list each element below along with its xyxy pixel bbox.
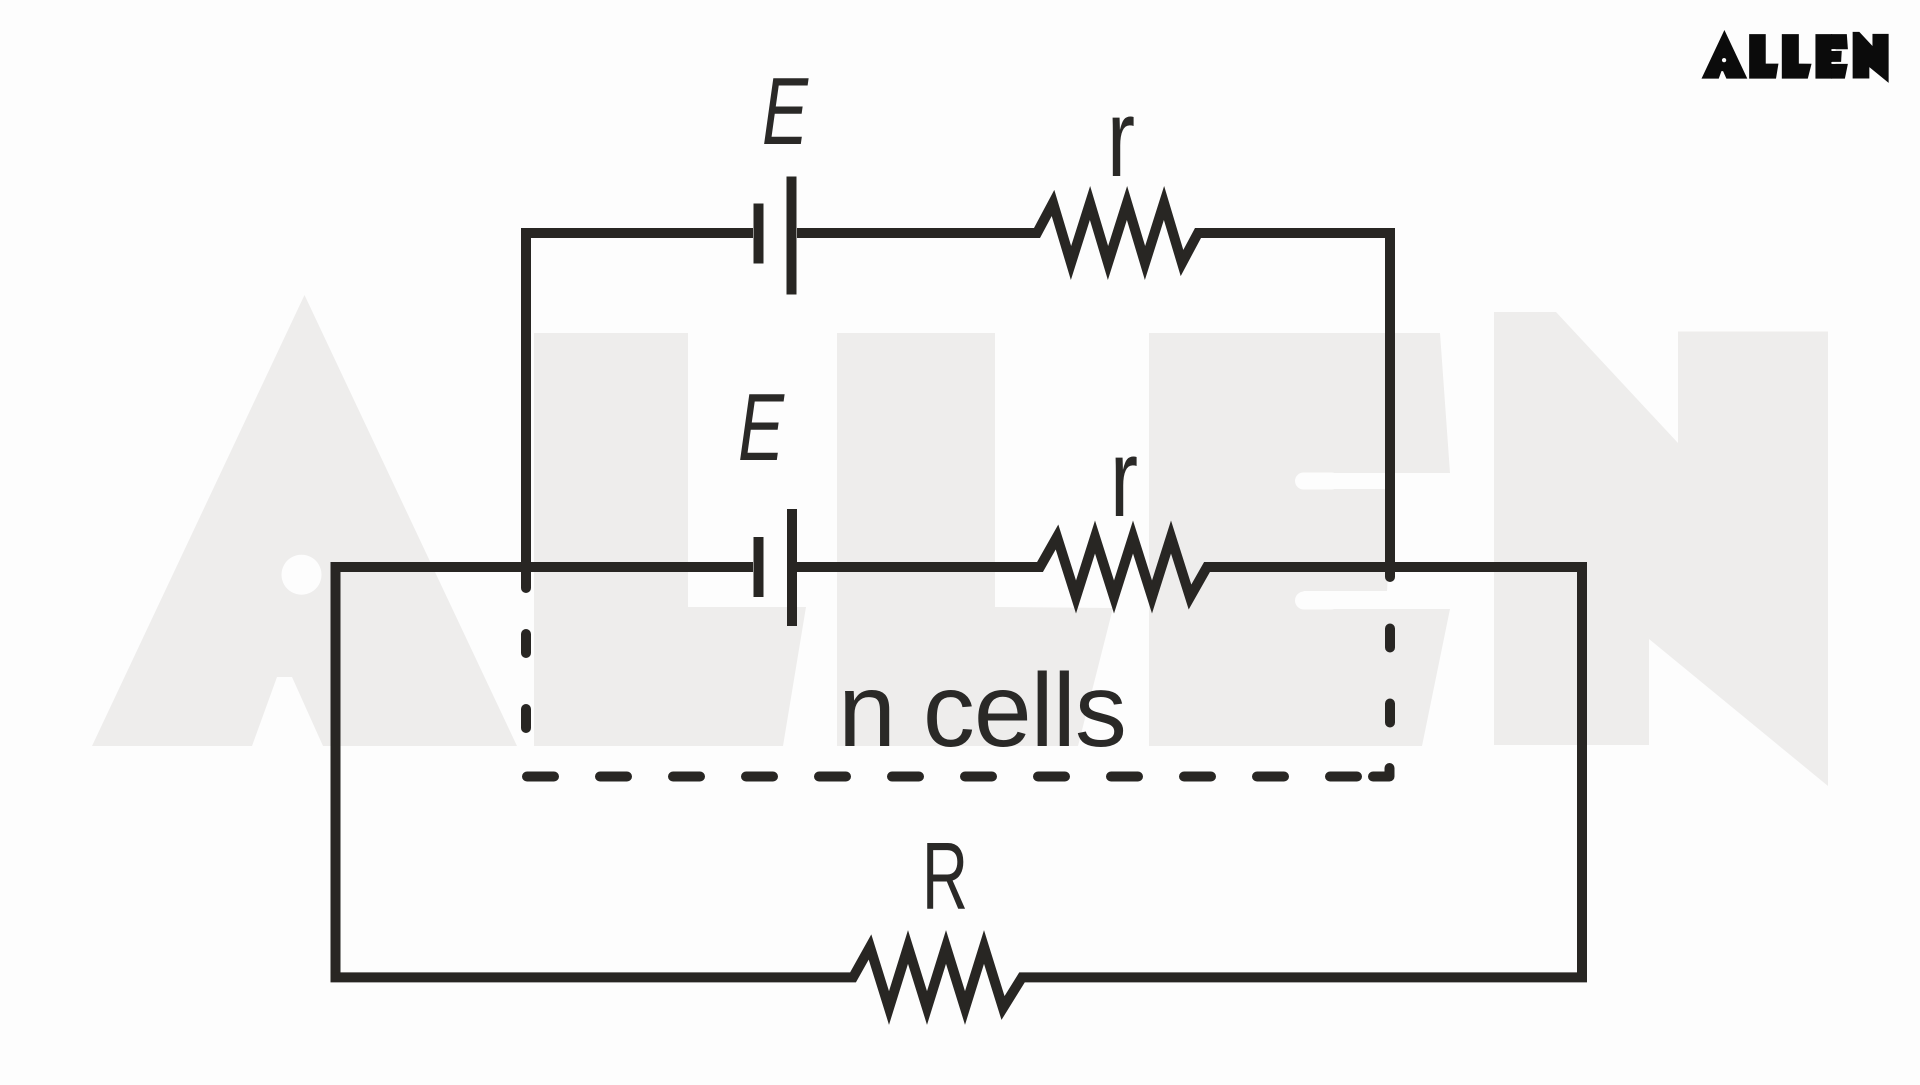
wire: second branch left segment: [336, 562, 754, 572]
svg-text:E: E: [738, 374, 785, 481]
resistor r (second) with leads: [797, 537, 1582, 597]
resistor R (bottom) with leads: [331, 947, 1588, 1008]
svg-text:n cells: n cells: [838, 653, 1126, 769]
wire: right vertical from top branch: [1385, 228, 1395, 577]
wire: outer loop left side: [331, 562, 341, 977]
resistor r (top) with leads: [797, 203, 1390, 263]
wire: top branch left segment: [526, 228, 753, 238]
svg-text:R: R: [922, 823, 968, 930]
wire: left vertical from top branch: [521, 228, 531, 588]
watermark ALLEN: [92, 295, 1828, 786]
dashed line: right vertical of n-cells box: [1385, 629, 1395, 761]
svg-text:r: r: [1110, 417, 1138, 540]
dashed corner hook bottom-right of n-cells box: [1373, 768, 1390, 777]
dashed line: bottom of n-cells box: [527, 772, 1389, 782]
svg-text:E: E: [762, 58, 809, 165]
wire: outer loop right side: [1577, 562, 1587, 977]
battery cell E (top), long plate: [787, 177, 797, 295]
battery cell E (second), long plate: [787, 509, 797, 626]
dashed line: left vertical of n-cells box: [521, 634, 531, 775]
svg-text:r: r: [1107, 77, 1135, 200]
logo ALLEN top right: [1702, 30, 1889, 83]
battery cell E (top), short plate: [754, 204, 764, 264]
battery cell E (second), short plate: [754, 537, 764, 597]
